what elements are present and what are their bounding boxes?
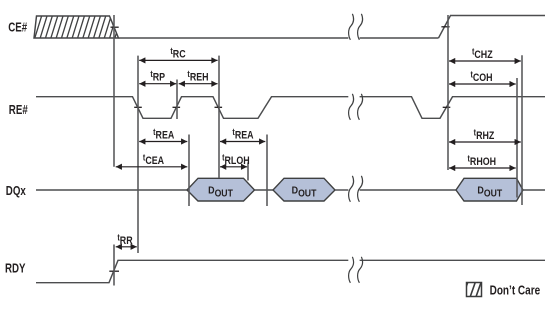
wire RDY waveform (36, 260, 545, 282)
svg-text:CE#: CE# (8, 22, 28, 35)
arrow tRC (139, 46, 217, 61)
svg-text:tCEA: tCEA (143, 153, 164, 168)
svg-text:tRC: tRC (170, 46, 185, 61)
break RE# (349, 94, 363, 120)
arrow tCOH (449, 70, 516, 85)
svg-text:RE#: RE# (9, 104, 29, 117)
arrow tRHZ (449, 128, 521, 143)
edge tick RE# fall 1 (134, 106, 142, 108)
svg-text:tREH: tREH (187, 69, 208, 84)
data bubble D_OUT 3 (456, 178, 523, 201)
svg-text:tRP: tRP (150, 69, 165, 84)
vertical reference line V7 (data valid 2) (266, 135, 268, 207)
wire DQx trailing (523, 189, 545, 191)
svg-text:Don’t Care: Don’t Care (490, 283, 541, 298)
svg-text:tCOH: tCOH (470, 70, 492, 85)
data bubble D_OUT 2 (273, 178, 335, 201)
edge tick RDY rise (109, 270, 119, 272)
vertical reference line V4 (RE# fall 2) (218, 56, 220, 178)
edge tick RE# rise 1 (173, 106, 181, 108)
vertical reference line V1 lower segment (tRR start / RDY rise) (113, 245, 115, 286)
vertical reference line V3 (RE# rise 1) (176, 80, 178, 120)
wire RE# waveform right of break (360, 97, 545, 119)
vertical reference line V1 (CE# fall) (113, 15, 115, 167)
svg-text:tRR: tRR (117, 233, 133, 248)
break DQx (349, 176, 363, 202)
CE# hatched band (30, 16, 122, 38)
edge tick RE# fall 2 (215, 106, 223, 108)
data bubble D_OUT 1 (187, 178, 255, 201)
svg-text:tREA: tREA (153, 127, 174, 142)
edge tick RE# rise last (443, 106, 451, 108)
svg-text:DQx: DQx (6, 185, 27, 198)
label CE# (8, 22, 28, 35)
label RE# (9, 104, 29, 117)
break CE# (349, 14, 363, 40)
edge tick CE# rise (441, 26, 449, 28)
svg-text:tRHOH: tRHOH (468, 154, 497, 169)
legend Don't Care swatch (463, 283, 482, 297)
label RDY (5, 263, 26, 276)
vertical reference line V6 (tRLOH end) (247, 163, 249, 181)
svg-text:tRLOH: tRLOH (222, 153, 250, 168)
break RDY (349, 257, 363, 283)
arrow tCEA (116, 153, 188, 168)
arrow tREH (179, 69, 218, 84)
edge tick CE# fall (111, 26, 119, 28)
vertical reference line V9 (output hold end) (516, 78, 518, 198)
wire CE# rising edge and high level (439, 16, 546, 39)
svg-text:RDY: RDY (5, 263, 26, 276)
svg-text:tREA: tREA (232, 127, 253, 142)
label DQx (6, 185, 27, 198)
vertical reference line V10 (high-Z end) (521, 55, 523, 205)
svg-text:tRHZ: tRHZ (474, 128, 495, 143)
wire RE# waveform left of break (36, 97, 348, 119)
vertical reference line V8 (CE#/RE# rise right) (447, 15, 449, 170)
wire DQx leading (36, 189, 187, 191)
svg-text:tCHZ: tCHZ (472, 47, 493, 62)
wire DQx after bubble 2 (335, 189, 456, 191)
vertical reference line V5 (data valid 1) (188, 135, 190, 207)
arrow tRR (116, 233, 137, 248)
arrow tRHOH (449, 154, 516, 169)
arrow tRP (139, 69, 176, 84)
arrow tCHZ (449, 47, 521, 62)
legend Don't Care text (490, 283, 541, 298)
wire CE# low level (119, 37, 439, 39)
arrow tREA 1 (139, 127, 187, 142)
arrow tRLOH (220, 153, 250, 168)
arrow tREA 2 (220, 127, 265, 142)
wire DQx between bubbles (255, 189, 274, 191)
vertical reference line V2 (RE# fall 1) (137, 56, 139, 253)
